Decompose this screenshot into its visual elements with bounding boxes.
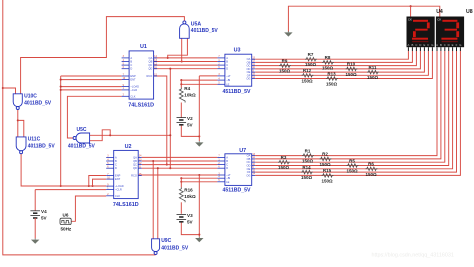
svg-text:A: A: [226, 155, 228, 159]
wire U11C input B jog: [18, 120, 24, 136]
svg-text:B: B: [440, 43, 442, 47]
wire U2 QA to U7 A: [142, 156, 218, 158]
svg-text:10kΩ: 10kΩ: [184, 92, 196, 97]
wire U7 OE to display segment E: [255, 51, 452, 169]
svg-text:RCO: RCO: [147, 74, 153, 78]
wire U3 ~LT to ground stem: [198, 76, 200, 141]
wire display CK net: [288, 6, 439, 32]
svg-text:B: B: [226, 159, 228, 163]
resistor R11 150ohm: [367, 70, 379, 74]
svg-text:G: G: [459, 43, 461, 47]
svg-text:D: D: [130, 67, 132, 71]
svg-text:R10: R10: [347, 62, 356, 67]
resistor R14 150ohm: [301, 170, 313, 174]
resistor R4 10kohm: [179, 88, 185, 103]
wire riser to U2 ENP: [89, 176, 106, 187]
ground (upper, V2 net): [195, 141, 203, 146]
svg-text:R12: R12: [303, 68, 312, 73]
svg-text:V3: V3: [187, 213, 193, 218]
clock source U6 50Hz: [60, 218, 71, 224]
wire U1 ENP row: [61, 75, 122, 77]
wire U5A input 2 from U1 QA: [168, 38, 188, 58]
svg-text:ENT: ENT: [115, 177, 121, 181]
nand gate U5A 4011BD_5V: [180, 24, 190, 38]
svg-text:D: D: [419, 43, 421, 47]
svg-text:OG: OG: [246, 173, 250, 177]
node junction U10C output split: [17, 119, 19, 121]
node junction on lower QB row: [152, 160, 154, 162]
svg-text:QD: QD: [148, 67, 152, 71]
svg-text:R15: R15: [323, 168, 332, 173]
svg-text:5V: 5V: [41, 216, 48, 221]
wire U7 OB to display segment B: [255, 51, 441, 159]
node junction CK branch: [410, 5, 412, 7]
svg-text:~BI: ~BI: [226, 176, 230, 180]
svg-text:U1: U1: [140, 44, 147, 50]
resistor R12 150ohm: [302, 74, 314, 78]
svg-text:CK: CK: [437, 17, 441, 21]
svg-text:150Ω: 150Ω: [367, 75, 379, 80]
resistor R9 150ohm: [279, 64, 291, 68]
counter U1 74LS161D: [122, 44, 158, 108]
svg-text:4011BD_5V: 4011BD_5V: [191, 28, 219, 34]
svg-text:50Hz: 50Hz: [61, 227, 72, 232]
svg-text:A: A: [436, 43, 438, 47]
svg-text:5V: 5V: [187, 122, 194, 127]
svg-text:R8: R8: [325, 55, 331, 60]
node junction ENT tap: [60, 79, 62, 81]
svg-text:74LS161D: 74LS161D: [128, 102, 154, 108]
svg-text:4511BD_5V: 4511BD_5V: [223, 187, 252, 193]
battery V2 5V: [177, 118, 187, 125]
svg-text:D: D: [115, 166, 117, 170]
resistor R13 150ohm: [326, 77, 338, 81]
svg-text:4011BD_5V: 4011BD_5V: [161, 245, 189, 251]
svg-text:U10C: U10C: [24, 94, 37, 100]
svg-text:https://blog.csdn.net/qq_43116: https://blog.csdn.net/qq_43116031: [372, 252, 454, 258]
svg-text:150Ω: 150Ω: [301, 175, 313, 180]
wire U9C output feedback net (left edge + bottom run): [3, 0, 156, 255]
wire U1 QA to U3 A: [154, 57, 218, 59]
wire U1 QD down to U7 D row: [169, 69, 171, 169]
resistor R8 150ohm: [322, 61, 334, 65]
wire U9C input B from U2 QD: [157, 168, 159, 239]
svg-text:QA: QA: [149, 56, 153, 60]
svg-text:R9: R9: [282, 58, 288, 63]
svg-text:B: B: [115, 159, 117, 163]
svg-text:5V: 5V: [187, 219, 194, 224]
svg-text:150Ω: 150Ω: [346, 169, 358, 174]
node junction on QB row: [181, 60, 183, 62]
wire U3 OE to display segment E: [255, 51, 424, 72]
wire U9C input A from U2 QB: [152, 161, 154, 239]
svg-text:150Ω: 150Ω: [305, 62, 317, 67]
wire CK to left display: [410, 6, 412, 16]
wire U3 OC to display segment C: [255, 51, 416, 66]
wire U3 OG to display segment G: [255, 51, 432, 79]
svg-text:R5: R5: [349, 158, 355, 163]
svg-text:G: G: [431, 43, 433, 47]
resistor R15 150ohm: [322, 174, 334, 178]
svg-text:F: F: [428, 43, 430, 47]
node junction L1 riser 2: [91, 185, 93, 187]
node junction RCO row to ground stem: [198, 174, 200, 176]
resistor R3 150ohm: [278, 160, 290, 164]
svg-text:R16: R16: [184, 188, 193, 193]
svg-text:CLK: CLK: [115, 194, 120, 198]
wire U2 QB to U7 B: [142, 160, 218, 162]
wire V4 minus stem: [34, 218, 36, 238]
svg-text:A: A: [407, 43, 409, 47]
wire U2 QC to U7 C: [142, 164, 218, 166]
wire U3 OB to display segment B: [255, 51, 412, 62]
wire U10C input A: [3, 88, 16, 94]
wire riser to U2 ENT: [93, 179, 107, 186]
svg-text:E: E: [452, 43, 454, 47]
svg-text:ENP: ENP: [115, 174, 121, 178]
svg-text:U2: U2: [125, 144, 132, 150]
nand gate U5C 4011BD_5V: [76, 133, 90, 143]
svg-text:QC: QC: [133, 163, 137, 167]
node junction L1 riser 1: [88, 185, 90, 187]
node junction U5C in1 on vertical: [169, 134, 171, 136]
node junction R4 top B: [180, 83, 182, 85]
node junction ~CLR tap: [60, 89, 62, 91]
svg-text:R4: R4: [184, 86, 190, 91]
svg-text:A: A: [115, 155, 117, 159]
svg-text:V4: V4: [41, 209, 47, 214]
nand gate U9C 4011BD_5V: [152, 239, 160, 252]
svg-text:B: B: [226, 60, 228, 64]
node junction R4 top A: [180, 79, 182, 81]
wire reset bus vertical: [60, 76, 62, 186]
resistor R16 10kohm: [179, 187, 185, 202]
svg-text:ENT: ENT: [130, 78, 136, 82]
node junction on lower QD row: [157, 167, 159, 169]
svg-text:C: C: [415, 43, 417, 47]
svg-text:OG: OG: [246, 77, 250, 81]
wire U3 OD to display segment D: [255, 51, 420, 69]
wire R4 top stem: [180, 80, 182, 87]
node junction on QA row: [167, 57, 169, 59]
svg-text:QB: QB: [133, 159, 137, 163]
wire U5C output to U1 CLK: [67, 96, 121, 138]
svg-text:10kΩ: 10kΩ: [184, 194, 196, 199]
svg-text:C: C: [115, 163, 117, 167]
wire R16 net to U7 ~BI: [181, 177, 217, 179]
node junction V2 minus join: [198, 135, 200, 137]
wire U10C output to U11C input A: [17, 110, 19, 137]
node junction U9C-out to U10C input A: [2, 87, 4, 89]
ground (V4 net): [31, 238, 39, 243]
battery V3 5V: [177, 215, 187, 222]
node junction V3 minus join: [198, 234, 200, 236]
nand gate U10C 4011BD_5V: [13, 94, 22, 107]
svg-text:U3: U3: [234, 47, 241, 53]
wire U5A output to U10C input B: [21, 17, 185, 94]
resistor R2 150ohm: [320, 157, 332, 161]
resistor R10 150ohm: [346, 67, 358, 71]
svg-text:R6: R6: [368, 162, 374, 167]
node junction reset bus to L1: [60, 185, 62, 187]
node junction R16 top A: [180, 177, 182, 179]
display pin stubs right: [436, 47, 438, 51]
wire U7 OF to display segment F: [255, 51, 456, 172]
svg-text:C: C: [226, 163, 228, 167]
resistor R1 150ohm: [302, 154, 314, 158]
wire U1 ~CLR row: [61, 89, 122, 91]
decoder U3 4511BD_5V: [217, 47, 255, 94]
wire R16 to V3: [180, 202, 182, 214]
svg-text:150Ω: 150Ω: [345, 72, 357, 77]
svg-text:~CLR: ~CLR: [115, 187, 122, 191]
svg-text:R1: R1: [305, 148, 311, 153]
svg-text:F: F: [456, 43, 458, 47]
svg-text:A: A: [226, 56, 228, 60]
svg-text:150Ω: 150Ω: [321, 178, 333, 183]
svg-text:4011BD_5V: 4011BD_5V: [68, 144, 96, 150]
node junction ~LOAD tap: [60, 86, 62, 88]
node junction on QD row: [169, 68, 171, 70]
svg-text:U6: U6: [63, 212, 69, 217]
svg-text:QA: QA: [133, 155, 137, 159]
ground (display CK net): [284, 31, 292, 36]
svg-text:R14: R14: [302, 165, 311, 170]
ground (lower, V3 net): [195, 237, 203, 242]
resistor R7 150ohm: [305, 57, 317, 61]
wire V3 minus to ground: [181, 222, 199, 235]
svg-text:C: C: [226, 63, 228, 67]
svg-text:150Ω: 150Ω: [302, 159, 314, 164]
svg-text:U4: U4: [436, 9, 443, 15]
battery V4 5V: [30, 211, 40, 218]
decoder U7 4511BD_5V: [217, 148, 255, 193]
resistor R5 150ohm: [347, 164, 359, 168]
svg-text:150Ω: 150Ω: [319, 162, 331, 167]
wire U7 OC to display segment C: [255, 51, 445, 162]
seven segment display U8 (digit 3): [436, 17, 464, 48]
wire U3 OF to display segment F: [255, 51, 428, 75]
seven segment display U4 (digit 2): [407, 17, 435, 48]
svg-text:QD: QD: [133, 166, 137, 170]
wire R16 top stem: [180, 178, 182, 187]
svg-text:150Ω: 150Ω: [365, 172, 377, 177]
wire R4 to V2: [180, 103, 182, 118]
wire U1 ~LOAD row: [61, 86, 122, 88]
node junction R16 top B: [180, 181, 182, 183]
svg-text:150Ω: 150Ω: [278, 165, 290, 170]
wire U3 OA to display segment A: [255, 51, 408, 59]
wire U7 OD to display segment D: [255, 51, 449, 166]
wire U1 QB to U3 B: [154, 61, 218, 63]
wire R16 net to U7 LE: [181, 181, 217, 183]
svg-text:R11: R11: [368, 65, 377, 70]
wire U1 QC to U3 C: [154, 64, 218, 66]
svg-text:CLK: CLK: [130, 94, 135, 98]
svg-text:A: A: [130, 56, 132, 60]
svg-text:LE: LE: [226, 180, 229, 184]
svg-text:QC: QC: [148, 63, 152, 67]
wire U7 OA to display segment A: [255, 51, 437, 156]
wire U1 RCO down to U7 C row: [154, 76, 167, 165]
svg-text:E: E: [423, 43, 425, 47]
svg-text:ENP: ENP: [130, 74, 136, 78]
wire U11C output to U2 ~LOAD (L1): [21, 154, 106, 186]
svg-text:R13: R13: [327, 71, 336, 76]
node junction row D lower: [169, 167, 171, 169]
svg-text:U11C: U11C: [28, 137, 41, 143]
wire U2 QD to U7 D: [142, 167, 218, 169]
svg-text:C: C: [444, 43, 446, 47]
svg-text:D: D: [226, 166, 228, 170]
svg-text:V2: V2: [187, 116, 193, 121]
svg-text:~LT: ~LT: [226, 74, 231, 78]
svg-text:D: D: [226, 67, 228, 71]
node junction U5C inputs tied: [109, 134, 111, 136]
svg-text:U5C: U5C: [77, 127, 87, 133]
wire U5C input 1: [90, 134, 171, 136]
svg-text:4011BD_5V: 4011BD_5V: [24, 100, 52, 106]
wire V2 minus run: [181, 125, 199, 137]
wire U9C output stub: [155, 253, 157, 256]
svg-text:QB: QB: [149, 60, 153, 64]
svg-text:C: C: [130, 63, 132, 67]
wire U1 QD to U3 D: [154, 68, 218, 70]
svg-text:B: B: [130, 60, 132, 64]
wire U1 ENT row: [61, 79, 122, 81]
svg-text:4511BD_5V: 4511BD_5V: [223, 89, 252, 95]
svg-text:R3: R3: [281, 155, 287, 160]
svg-text:R7: R7: [308, 52, 314, 57]
wire V4 to U2 ~CLR (L2): [35, 189, 106, 191]
counter U2 74LS161D: [106, 144, 142, 208]
svg-text:150Ω: 150Ω: [326, 82, 338, 87]
svg-text:LE: LE: [226, 82, 229, 86]
svg-text:U5A: U5A: [191, 21, 202, 27]
svg-text:150Ω: 150Ω: [322, 65, 334, 70]
wire U2 RCO / U7 ~LT row: [138, 174, 217, 176]
svg-text:4011BD_5V: 4011BD_5V: [28, 143, 56, 149]
wire R4 net to U3 ~BI: [181, 79, 217, 81]
wire to U3 ~LT pin: [199, 75, 217, 77]
wire U7 OG to display segment G: [255, 51, 460, 175]
svg-text:~BI: ~BI: [226, 78, 230, 82]
wire U5C input 2 jog: [90, 130, 111, 141]
resistor R6 150ohm: [366, 167, 378, 171]
svg-text:U9C: U9C: [161, 238, 171, 244]
display pin stubs left: [407, 47, 409, 51]
node junction row C lower: [166, 164, 168, 166]
svg-text:U7: U7: [239, 148, 246, 154]
svg-text:RCO: RCO: [131, 174, 137, 178]
wire ground stem lower: [198, 175, 200, 237]
svg-text:150Ω: 150Ω: [301, 78, 313, 83]
svg-text:D: D: [448, 43, 450, 47]
svg-text:150Ω: 150Ω: [279, 69, 291, 74]
svg-text:U8: U8: [466, 9, 473, 15]
svg-text:74LS161D: 74LS161D: [113, 202, 139, 208]
svg-text:CK: CK: [408, 17, 412, 21]
wire R4 net to U3 LE: [181, 83, 217, 85]
wire U5A input 1 from U1 QB: [181, 38, 183, 61]
svg-text:~CLR: ~CLR: [130, 88, 137, 92]
wire U6 50Hz to U2 CLK: [71, 196, 106, 221]
nand gate U11C 4011BD_5V: [16, 137, 26, 151]
svg-text:R2: R2: [322, 152, 328, 157]
svg-text:B: B: [411, 43, 413, 47]
wire V4 positive stem: [34, 190, 36, 211]
